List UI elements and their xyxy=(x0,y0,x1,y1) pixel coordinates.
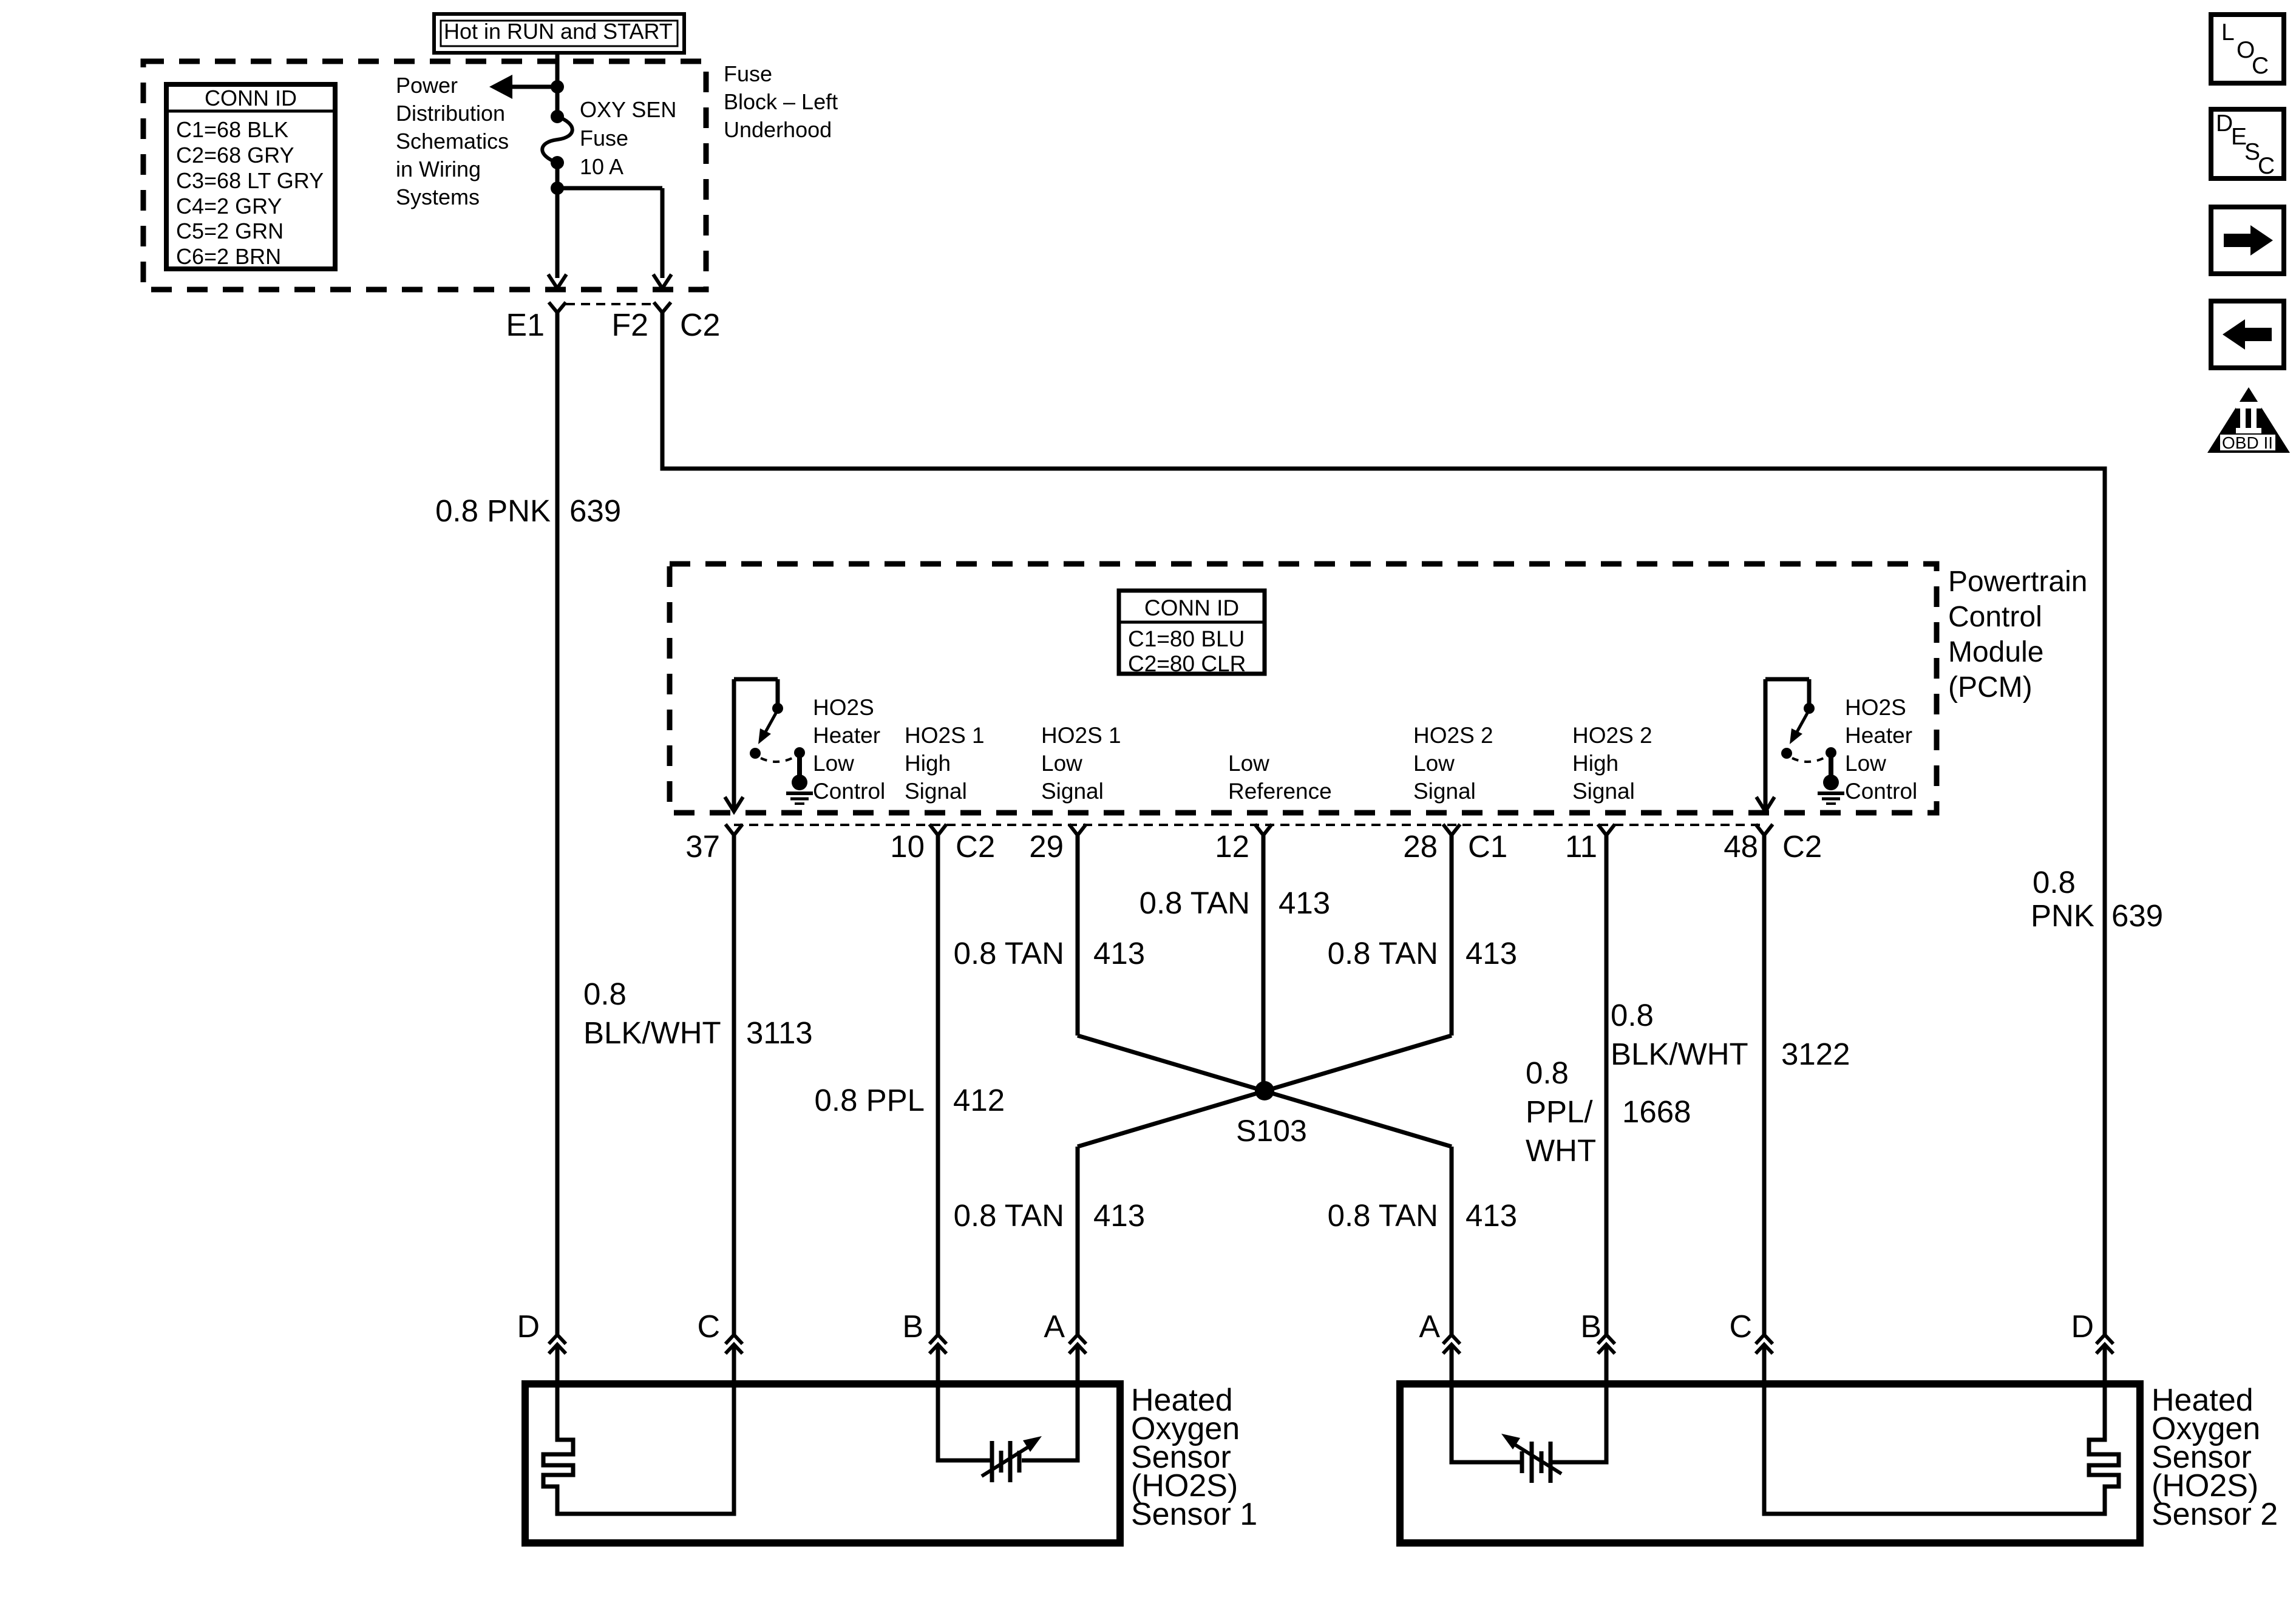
svg-text:413: 413 xyxy=(1279,886,1330,920)
svg-text:Powertrain: Powertrain xyxy=(1948,566,2087,598)
svg-text:F2: F2 xyxy=(611,308,648,343)
svg-text:S103: S103 xyxy=(1236,1114,1307,1148)
svg-text:BLK/WHT: BLK/WHT xyxy=(583,1015,721,1050)
svg-text:37: 37 xyxy=(685,829,720,864)
svg-text:HO2S 1: HO2S 1 xyxy=(1041,723,1121,748)
svg-text:C2=80 CLR: C2=80 CLR xyxy=(1128,651,1246,676)
svg-text:Signal: Signal xyxy=(1413,779,1476,804)
svg-text:C1: C1 xyxy=(1468,829,1507,864)
svg-text:BLK/WHT: BLK/WHT xyxy=(1611,1037,1748,1071)
svg-text:Signal: Signal xyxy=(1572,779,1635,804)
svg-text:Heater: Heater xyxy=(1845,723,1912,748)
svg-text:0.8: 0.8 xyxy=(2033,865,2076,900)
svg-text:A: A xyxy=(1419,1309,1440,1344)
svg-text:639: 639 xyxy=(569,493,621,528)
svg-text:C: C xyxy=(1729,1309,1752,1344)
svg-text:0.8 TAN: 0.8 TAN xyxy=(954,936,1064,971)
svg-text:HO2S: HO2S xyxy=(813,695,874,720)
svg-text:Hot in RUN and START: Hot in RUN and START xyxy=(444,19,673,44)
svg-text:0.8: 0.8 xyxy=(1611,998,1654,1032)
svg-text:OBD II: OBD II xyxy=(2222,433,2273,452)
svg-text:C4=2 GRY: C4=2 GRY xyxy=(176,194,282,219)
svg-text:0.8 TAN: 0.8 TAN xyxy=(1328,1198,1438,1233)
svg-text:HO2S 2: HO2S 2 xyxy=(1413,723,1493,748)
svg-text:C5=2 GRN: C5=2 GRN xyxy=(176,219,284,243)
svg-text:0.8 TAN: 0.8 TAN xyxy=(954,1198,1064,1233)
svg-text:Low: Low xyxy=(1041,751,1082,776)
svg-text:OXY SEN: OXY SEN xyxy=(580,97,676,122)
svg-text:B: B xyxy=(902,1309,923,1344)
svg-text:(PCM): (PCM) xyxy=(1948,671,2033,703)
svg-text:29: 29 xyxy=(1029,829,1064,864)
svg-text:413: 413 xyxy=(1093,1198,1145,1233)
svg-text:PNK: PNK xyxy=(2031,898,2094,933)
svg-text:639: 639 xyxy=(2111,898,2163,933)
svg-text:0.8: 0.8 xyxy=(1526,1056,1569,1090)
svg-text:C: C xyxy=(697,1309,720,1344)
svg-text:413: 413 xyxy=(1093,936,1145,971)
svg-text:11: 11 xyxy=(1565,829,1597,864)
svg-text:0.8 TAN: 0.8 TAN xyxy=(1140,886,1250,920)
svg-text:Low: Low xyxy=(1845,751,1886,776)
svg-text:Control: Control xyxy=(1845,779,1917,804)
svg-text:E1: E1 xyxy=(506,308,545,343)
svg-text:Signal: Signal xyxy=(905,779,967,804)
svg-text:Fuse: Fuse xyxy=(724,61,772,86)
svg-text:HO2S 2: HO2S 2 xyxy=(1572,723,1652,748)
svg-text:C2=68 GRY: C2=68 GRY xyxy=(176,143,294,168)
svg-text:0.8 TAN: 0.8 TAN xyxy=(1328,936,1438,971)
svg-text:1668: 1668 xyxy=(1622,1094,1691,1129)
svg-text:412: 412 xyxy=(953,1083,1005,1117)
svg-text:Low: Low xyxy=(1413,751,1455,776)
svg-text:CONN ID: CONN ID xyxy=(205,86,297,110)
svg-text:A: A xyxy=(1044,1309,1065,1344)
svg-text:D: D xyxy=(2071,1309,2094,1344)
svg-text:Power: Power xyxy=(396,73,458,98)
svg-text:B: B xyxy=(1580,1309,1601,1344)
svg-text:Control: Control xyxy=(813,779,885,804)
svg-text:Module: Module xyxy=(1948,636,2043,668)
svg-text:10 A: 10 A xyxy=(580,154,623,179)
svg-text:0.8: 0.8 xyxy=(583,977,627,1011)
svg-text:Systems: Systems xyxy=(396,185,480,209)
svg-text:Fuse: Fuse xyxy=(580,126,628,151)
svg-text:Distribution: Distribution xyxy=(396,101,505,126)
svg-text:High: High xyxy=(1572,751,1618,776)
svg-text:10: 10 xyxy=(890,829,925,864)
svg-text:C2: C2 xyxy=(956,829,995,864)
svg-text:PPL/: PPL/ xyxy=(1526,1094,1593,1129)
svg-text:48: 48 xyxy=(1724,829,1758,864)
svg-text:3113: 3113 xyxy=(746,1015,813,1050)
svg-text:413: 413 xyxy=(1466,936,1517,971)
svg-text:Sensor 1: Sensor 1 xyxy=(1131,1497,1257,1532)
svg-text:in Wiring: in Wiring xyxy=(396,157,481,181)
svg-text:Control: Control xyxy=(1948,601,2042,633)
svg-text:28: 28 xyxy=(1403,829,1438,864)
svg-text:C3=68 LT GRY: C3=68 LT GRY xyxy=(176,168,324,193)
svg-text:0.8 PPL: 0.8 PPL xyxy=(815,1083,925,1117)
svg-text:L: L xyxy=(2221,19,2235,46)
svg-text:Underhood: Underhood xyxy=(724,117,832,142)
svg-text:413: 413 xyxy=(1466,1198,1517,1233)
svg-text:HO2S 1: HO2S 1 xyxy=(905,723,985,748)
svg-text:3122: 3122 xyxy=(1781,1037,1850,1071)
svg-text:C1=68 BLK: C1=68 BLK xyxy=(176,117,288,142)
svg-text:D: D xyxy=(2216,110,2233,137)
svg-text:C: C xyxy=(2258,153,2275,179)
svg-text:Block – Left: Block – Left xyxy=(724,89,838,114)
svg-text:C6=2 BRN: C6=2 BRN xyxy=(176,244,281,269)
svg-text:C2: C2 xyxy=(1782,829,1822,864)
svg-text:D: D xyxy=(517,1309,540,1344)
svg-text:Low: Low xyxy=(1228,751,1269,776)
svg-text:Low: Low xyxy=(813,751,854,776)
svg-text:CONN ID: CONN ID xyxy=(1144,595,1239,620)
svg-text:WHT: WHT xyxy=(1526,1133,1596,1168)
svg-text:C2: C2 xyxy=(680,308,720,343)
svg-text:Signal: Signal xyxy=(1041,779,1104,804)
svg-text:C1=80 BLU: C1=80 BLU xyxy=(1128,626,1245,651)
svg-text:HO2S: HO2S xyxy=(1845,695,1906,720)
svg-text:Sensor 2: Sensor 2 xyxy=(2152,1497,2278,1532)
svg-text:Schematics: Schematics xyxy=(396,129,509,154)
svg-text:Heater: Heater xyxy=(813,723,880,748)
svg-text:C: C xyxy=(2252,53,2269,79)
svg-text:12: 12 xyxy=(1215,829,1249,864)
svg-text:High: High xyxy=(905,751,951,776)
svg-text:Reference: Reference xyxy=(1228,779,1332,804)
svg-text:0.8 PNK: 0.8 PNK xyxy=(435,493,551,528)
